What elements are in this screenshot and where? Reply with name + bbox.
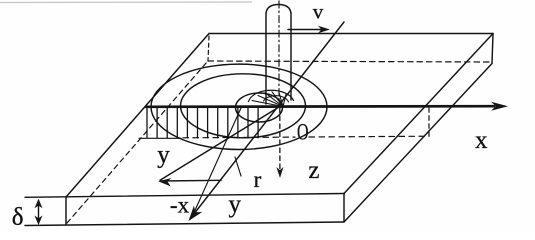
shallow line O to point P <box>160 107 279 180</box>
fan ray 2 <box>258 96 283 107</box>
fan ray 5 <box>279 93 283 107</box>
molten-pool fan inner arc <box>264 96 289 102</box>
cylinder top dome <box>266 5 291 14</box>
y-axis long line (344,22)->(189,220) <box>190 22 344 219</box>
slab front-top edge (extended left for dimension) <box>25 194 344 198</box>
hidden back-left vertical edge (dashed) <box>208 36 209 61</box>
slab bottom-right slanted edge <box>344 64 492 223</box>
P arrowhead (-x direction) <box>158 178 171 186</box>
slab front-bottom edge (extended left for dimension) <box>25 222 344 226</box>
isotherm ellipse middle <box>181 74 306 138</box>
z-axis dashed shaft <box>279 108 281 169</box>
svg-text:y: y <box>157 142 170 169</box>
hatch bottom boundary solid <box>139 137 181 139</box>
hidden back-bottom edge (dashed) <box>208 61 489 62</box>
hatch bottom boundary continuation dashed to node below O <box>183 136 295 139</box>
cylinder left edge <box>265 13 267 104</box>
hidden bottom-left slanted edge (dashed) <box>67 62 207 223</box>
isotherm ellipse outer <box>151 64 327 149</box>
slab right-top slanted edge <box>344 34 493 194</box>
fan ray 6 <box>283 95 286 107</box>
slab back-right vertical edge <box>492 34 493 64</box>
v arrow shaft <box>288 29 322 31</box>
z arrowhead <box>276 167 283 178</box>
delta arrowhead up <box>35 199 43 209</box>
cylinder centerline dash-dot <box>278 1 280 106</box>
fan ray 4 <box>272 92 283 107</box>
r leader stub <box>235 157 241 176</box>
delta arrowhead down <box>35 216 43 226</box>
slab front-right vertical edge <box>343 194 345 223</box>
x-axis thick shaft <box>146 105 494 108</box>
svg-text:δ: δ <box>12 204 24 231</box>
svg-text:r: r <box>254 167 262 192</box>
svg-text:z: z <box>308 157 319 184</box>
svg-text:-x: -x <box>170 193 190 218</box>
horizontal -x arrow shaft from y-axis to P <box>161 179 221 182</box>
secondary steep line to same arrow tip <box>192 108 241 217</box>
svg-text:O: O <box>297 120 309 146</box>
molten-pool fan outer arc <box>249 90 294 101</box>
delta dimension arrow shaft <box>38 201 40 223</box>
svg-text:v: v <box>313 0 324 24</box>
hatch distribution verticals under x-axis <box>147 108 258 138</box>
dashed vertical from node up to x-axis <box>428 108 430 136</box>
v arrowhead <box>318 26 330 33</box>
y-axis arrowhead <box>189 206 203 221</box>
svg-text:y: y <box>229 191 242 218</box>
isotherm ellipse inner <box>236 93 283 122</box>
dashed line from O to node <box>309 135 429 138</box>
slab left-top slanted edge <box>66 34 209 198</box>
fan ray 1 <box>252 101 283 107</box>
svg-text:x: x <box>475 127 488 154</box>
cylinder right edge <box>290 13 292 100</box>
slab back-top edge <box>209 33 493 35</box>
x-axis arrowhead <box>491 102 508 111</box>
fan ray 3 <box>265 93 283 107</box>
slab front-left vertical edge <box>65 197 67 225</box>
